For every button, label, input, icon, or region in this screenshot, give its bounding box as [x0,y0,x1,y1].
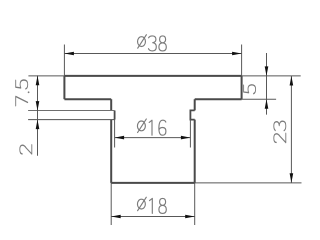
extension line: Ø16 right vertical [189,120,191,148]
extension line: flange top extended left for 7.5 dim [28,75,64,77]
part outline: flange top edge [64,75,241,77]
arrowhead: Ø18 right [185,215,195,219]
part outline: left groove cap (bore edge) [114,111,116,120]
extension line: groove bottom extended left for 2 dim [28,119,115,121]
arrowhead: 7.5 bottom / 2 top [36,101,40,111]
arrowhead: 23 bottom [290,173,294,183]
label 23 (rotated) [274,133,286,142]
part outline: right groove notch [190,110,194,119]
extension line: Ø38 right vertical [241,45,243,76]
dimension line: Ø38 [64,53,241,55]
extension line: Ø16 left vertical [114,120,116,148]
arrowhead: 7.5 top [36,76,40,86]
part outline: left wall below groove [110,120,112,183]
extension line: Ø18 right vertical [194,183,196,225]
arrowhead: Ø38 right [232,52,242,56]
part outline: right wall below groove [194,120,196,183]
dimension line: 7.5 and 2 stack (left) [37,75,39,155]
dimension line: Ø18 [111,216,195,218]
arrowhead: 2 bottom [36,120,40,130]
decimal point of 7.5 label [28,91,30,93]
extension line: part bottom extended right for 23 dim [195,182,302,184]
extension line: groove top extended left for 2 dim [28,110,115,112]
part outline: left wall above groove [110,99,112,110]
label 5 (rotated) [244,85,256,94]
label Ø18 [137,197,146,211]
part outline: right wall above groove [194,99,196,110]
arrowhead: Ø16 left [115,136,125,140]
extension line: Ø18 left vertical [110,183,112,225]
dimension line: Ø16 [115,137,191,139]
part outline: bottom edge [111,182,195,184]
label 2 (rotated) [20,145,32,154]
part outline: flange left edge [63,76,65,99]
label Ø38 [138,35,147,49]
extension line: Ø38 left vertical [63,45,65,76]
label 7.5 (rotated) [16,96,28,105]
dimension line: 23 (far right) [290,76,292,183]
arrowhead: Ø16 right [181,136,191,140]
part outline: flange bottom right step [195,98,242,100]
label Ø16 [137,119,146,133]
arrowhead: Ø38 left [64,52,74,56]
part outline: flange right edge [241,76,243,99]
arrowhead: 5 bottom [265,99,269,109]
part outline: flange bottom left step [64,98,111,100]
extension line: flange bottom extended right for 5 dim [242,98,277,100]
extension line: flange top extended right for 5 and 23 dims [242,75,301,77]
arrowhead: 23 top [290,76,294,86]
arrowhead: 5 top [265,66,269,76]
arrowhead: Ø18 left [111,215,121,219]
dimension line: 5 (right) [266,53,268,115]
